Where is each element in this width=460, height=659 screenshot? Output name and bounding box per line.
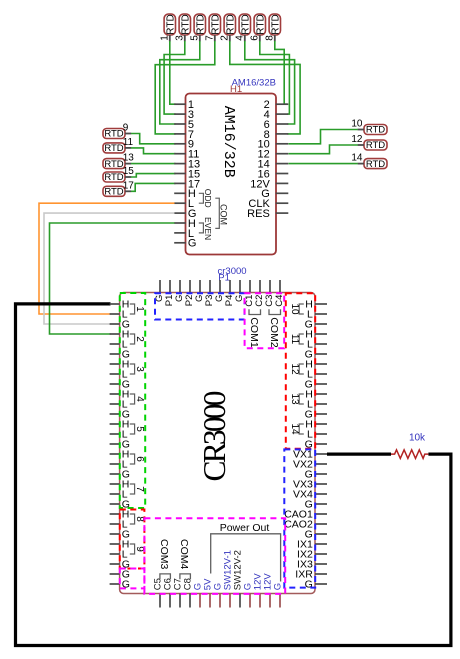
RTD 13 (left) [103,153,134,170]
P1 right pin VX1 [293,449,327,461]
H1 left pin H [174,218,196,230]
wire RTD 2 to AM16/32B [230,41,300,134]
P1 right pin CAO2 [284,519,327,531]
bracket pair 3 [130,364,145,374]
svg-text:6: 6 [134,456,145,462]
P1 right pin CAO1 [284,509,327,521]
RTD 8 (top) [264,14,281,41]
svg-text:12: 12 [289,363,300,375]
P1 left pin G pair 4 [110,409,130,421]
svg-text:14: 14 [289,423,300,435]
H1 left pin H [174,188,196,200]
P1 right pin IX3 [297,559,327,571]
wire thick black loop H1..VX1 [16,304,451,646]
svg-text:RTD: RTD [366,140,385,151]
svg-text:9: 9 [123,123,129,134]
wire gray ODD G to CR3000 G [44,213,175,324]
wire RTD 11 to AM16/32B pin 11 [131,148,176,154]
P1 right pin IXR [295,569,327,581]
P1 bottom pin G [273,583,284,608]
P1 left pin H pair 7 [110,479,130,491]
svg-text:17: 17 [123,180,135,191]
svg-text:15: 15 [123,166,135,177]
svg-text:EVEN: EVEN [203,217,213,240]
multiplexer H1 AM16/32B body [186,94,277,255]
H1 right pin 10 [258,139,289,151]
net group box blue VX-IX [284,449,315,587]
svg-text:12: 12 [351,134,363,145]
RTD 9 (left) [103,123,131,140]
P1 right pin VX2 [293,459,327,471]
P1 left pin L pair 7 [110,489,128,501]
P1 bottom pin C6 [163,578,174,607]
H1 right pin 4 [264,109,289,121]
bracket pair 11 [289,334,304,345]
H1 right pin 14 [258,159,289,171]
svg-text:6: 6 [249,35,260,41]
svg-text:14: 14 [351,153,363,164]
H1 left pin 5 [174,119,194,131]
H1 right pin 2 [264,99,289,111]
bracket Power Out [211,534,281,582]
svg-text:RTD: RTD [195,14,206,34]
svg-text:3: 3 [134,366,145,372]
wire RTD 4 to AM16/32B [245,41,295,124]
net group box green pairs 1-7 [120,293,145,508]
svg-text:9: 9 [134,546,145,552]
P1 left pin H pair 3 [110,359,130,371]
P1 top pin P1 [164,280,175,306]
H1 right pin 6 [264,119,289,131]
wire RTD 3 to AM16/32B [164,41,185,114]
wire RTD 13 to AM16/32B pin 13 [131,163,176,165]
svg-text:AM16/32B: AM16/32B [220,106,237,178]
svg-text:G: G [305,579,313,591]
P1 top pin G [214,280,225,302]
RTD 15 (left) [103,166,134,183]
wire thick black VX1 segment [327,453,391,456]
P1 right pin H pair 13 [305,389,327,401]
P1 left pin L pair 1 [110,309,128,321]
svg-text:2: 2 [219,35,230,41]
svg-text:8: 8 [264,35,275,41]
P1 left pin H pair 9 [110,539,130,551]
svg-text:RTD: RTD [210,14,221,34]
svg-text:RTD: RTD [104,129,123,140]
net group box magenta Power Out [144,518,285,594]
bracket pair 14 [289,423,304,435]
bracket pair 5 [130,424,145,434]
bracket COM [215,198,219,228]
P1 bottom pin SW12V-1 [223,550,234,607]
svg-text:8: 8 [134,516,145,522]
svg-text:1: 1 [159,35,170,41]
P1 top pin P3 [204,280,215,306]
bracket ODD [199,193,204,203]
P1 top pin C1 [244,280,255,307]
svg-text:COM4: COM4 [178,539,190,569]
H1 left pin 9 [174,139,194,151]
P1 bottom pin G [213,583,224,608]
svg-text:RTD: RTD [270,14,281,34]
P1 left pin H pair 5 [110,419,130,431]
bracket pair 9 [130,544,145,554]
P1 right pin G [305,469,327,481]
bracket EVEN [199,223,204,233]
P1 bottom pin C7 [173,578,184,607]
svg-text:RTD: RTD [104,143,123,154]
wire RTD 17 to AM16/32B pin 17 [131,183,176,191]
P1 left pin G pair 8 [110,529,130,541]
P1 top pin C3 [264,280,275,307]
wire RTD 5 to AM16/32B [160,41,200,124]
P1 top pin P2 [184,280,195,306]
P1 right pin L pair 11 [307,339,327,351]
P1 left pin L pair 5 [110,429,128,441]
svg-text:7: 7 [204,35,215,41]
P1 right pin G pair 14 [305,439,327,451]
svg-text:RTD: RTD [104,172,123,183]
H1 left pin 15 [174,168,200,180]
RTD 10 (right) [351,119,387,136]
bracket pair 12 [289,363,304,375]
svg-text:RTD: RTD [366,159,385,170]
H1 left pin 3 [174,109,194,121]
P1 top pin P4 [224,280,235,306]
P1 right pin H pair 12 [305,359,327,371]
bracket pair 1 [130,304,145,314]
svg-text:5: 5 [189,35,200,41]
svg-text:CR3000: CR3000 [197,391,232,481]
P1 right pin L pair 12 [307,369,327,381]
svg-text:RTD: RTD [180,14,191,34]
P1 left pin H pair 4 [110,389,130,401]
P1 right pin IX2 [297,549,327,561]
bracket pair 8 [130,514,145,524]
svg-text:COM1: COM1 [248,317,260,347]
net group box magenta GG [120,569,145,589]
H1 left pin 13 [174,159,200,171]
wire RTD 8 to AM16/32B [275,41,288,104]
P1 top pin C2 [254,280,265,307]
P1 bottom pin 12V [253,573,264,608]
svg-text:RTD: RTD [255,14,266,34]
net group box red pairs 10-14 [286,293,315,449]
svg-text:RTD: RTD [225,14,236,34]
H1 right pin 12V [250,178,288,190]
P1 left pin G pair 1 [110,319,130,331]
P1 bottom pin C5 [153,578,164,607]
svg-text:4: 4 [134,396,145,402]
svg-text:10: 10 [351,119,363,130]
wire AM16/32B pin 12 to RTD 12 [289,145,358,154]
net group box red pairs 8-9 [120,510,145,569]
svg-text:RTD: RTD [165,14,176,34]
H1 right pin RES [247,208,288,220]
resistor R 10k [391,450,428,459]
P1 right pin L pair 13 [307,399,327,411]
P1 left pin L pair 6 [110,459,128,471]
P1 bottom pin SW12V-2 [233,550,244,607]
P1 top pin G [174,280,185,302]
bracket COM3 (C5,C6) [160,574,171,579]
H1 right pin 12 [258,149,289,161]
RTD 14 (right) [351,153,387,170]
svg-text:13: 13 [123,153,135,164]
wire RTD 6 to AM16/32B [260,41,290,114]
P1 right pin H pair 10 [305,299,327,311]
P1 left pin L pair 3 [110,369,128,381]
P1 top pin C4 [274,280,285,307]
bracket pair 10 [289,303,304,315]
wire orange ODD L to CR3000 L1 [39,203,175,314]
wire RTD 15 to AM16/32B pin 15 [131,174,176,177]
svg-text:5: 5 [134,426,145,432]
RTD 2 (top) [219,14,236,41]
bracket COM2 (C3,C4) [269,309,281,314]
wire AM16/32B pin 10 to RTD 10 [289,130,358,144]
svg-text:13: 13 [289,393,300,405]
RTD 4 (top) [234,14,251,41]
P1 left pin H pair 8 [110,509,130,521]
P1 right pin G [305,579,327,591]
H1 right pin G [261,188,288,200]
H1 left pin 1 [174,99,194,111]
P1 right pin L pair 10 [307,309,327,321]
P1 left pin L pair 2 [110,339,128,351]
H1 right pin CLK [248,198,288,210]
P1 bottom pin G [193,583,204,608]
P1 right pin H pair 14 [305,419,327,431]
svg-text:COM3: COM3 [158,539,170,569]
H1 left pin L [174,198,194,210]
H1 left pin L [174,228,194,240]
svg-text:4: 4 [234,35,245,41]
P1 top pin G [234,280,245,302]
P1 top pin G [154,280,165,302]
svg-text:G: G [273,583,284,590]
svg-text:2: 2 [134,336,145,342]
svg-text:COM2: COM2 [268,317,280,347]
P1 right pin G pair 11 [305,349,327,361]
P1 left pin G pair 6 [110,469,130,481]
P1 left pin G [110,579,130,591]
P1 left pin L pair 4 [110,399,128,411]
svg-text:ODD: ODD [203,189,213,208]
svg-text:11: 11 [289,334,300,345]
bracket pair 7 [130,484,145,494]
P1 left pin L pair 9 [110,549,128,561]
P1 right pin G pair 12 [305,379,327,391]
wire RTD 1 to AM16/32B [170,41,176,104]
H1 right pin 8 [264,129,289,141]
net group box blue P1-P4 [155,293,245,319]
wire green EVEN H to CR3000 H2 [50,223,175,334]
svg-text:3: 3 [174,35,185,41]
H1 right pin 16 [258,168,289,180]
P1 bottom pin C8 [183,578,194,607]
svg-text:10: 10 [289,303,300,315]
H1 left pin 7 [174,129,194,141]
svg-text:RTD: RTD [366,125,385,136]
H1 left pin 11 [174,149,199,161]
bracket pair 4 [130,394,145,404]
P1 left pin G pair 5 [110,439,130,451]
P1 left pin H pair 1 [110,299,130,311]
P1 left pin G pair 3 [110,379,130,391]
wire RTD 9 to AM16/32B pin 9 [131,134,176,144]
H1 left pin 17 [174,178,200,190]
P1 bottom pin 5V [203,578,214,608]
P1 bottom pin G [243,583,254,608]
P1 left pin H pair 2 [110,329,130,341]
svg-text:RTD: RTD [104,159,123,170]
P1 left pin G pair 9 [110,559,130,571]
svg-text:RTD: RTD [104,187,123,198]
RTD 12 (right) [351,134,387,151]
bracket pair 6 [130,454,145,464]
svg-text:11: 11 [123,137,134,148]
RTD 17 (left) [103,180,134,197]
P1 right pin VX3 [293,479,327,491]
P1 bottom pin 12V [263,573,274,608]
P1 right pin VX4 [293,489,327,501]
P1 left pin G pair 7 [110,499,130,511]
svg-text:1: 1 [134,306,145,312]
svg-text:RES: RES [247,208,270,220]
svg-text:Power Out: Power Out [220,522,270,534]
H1 left pin G [174,238,196,250]
P1 right pin L pair 14 [307,429,327,441]
P1 right pin H pair 11 [305,329,327,341]
P1 left pin G [110,569,130,581]
bracket pair 13 [289,393,304,405]
P1 right pin IX1 [297,539,327,551]
net group box magenta COM1-COM2 [245,293,285,348]
P1 right pin G pair 13 [305,409,327,421]
P1 top pin G [194,280,205,302]
RTD 3 (top) [174,14,191,41]
bracket pair 2 [130,334,145,344]
P1 left pin L pair 8 [110,519,128,531]
bracket COM1 (C1,C2) [249,309,261,314]
wire AM16/32B pin 14 to RTD 14 [289,163,358,165]
bracket COM4 (C7,C8) [180,574,191,579]
P1 left pin H pair 6 [110,449,130,461]
P1 left pin G pair 2 [110,349,130,361]
svg-text:RTD: RTD [240,14,251,34]
P1 right pin G pair 10 [305,319,327,331]
datalogger P1 CR3000 body [120,293,315,594]
RTD 7 (top) [204,14,221,41]
RTD 11 (left) [103,137,134,154]
H1 left pin G [174,208,196,220]
svg-text:G: G [188,238,197,250]
P1 right pin G [305,529,327,541]
svg-text:7: 7 [134,486,145,492]
svg-text:H1: H1 [230,84,242,95]
RTD 6 (top) [249,14,266,41]
wire RTD 7 to AM16/32B [155,41,215,134]
svg-text:10k: 10k [409,433,426,444]
RTD 5 (top) [189,14,206,41]
P1 right pin G [305,499,327,511]
svg-text:COM: COM [219,204,229,225]
RTD 1 (top) [159,14,176,41]
